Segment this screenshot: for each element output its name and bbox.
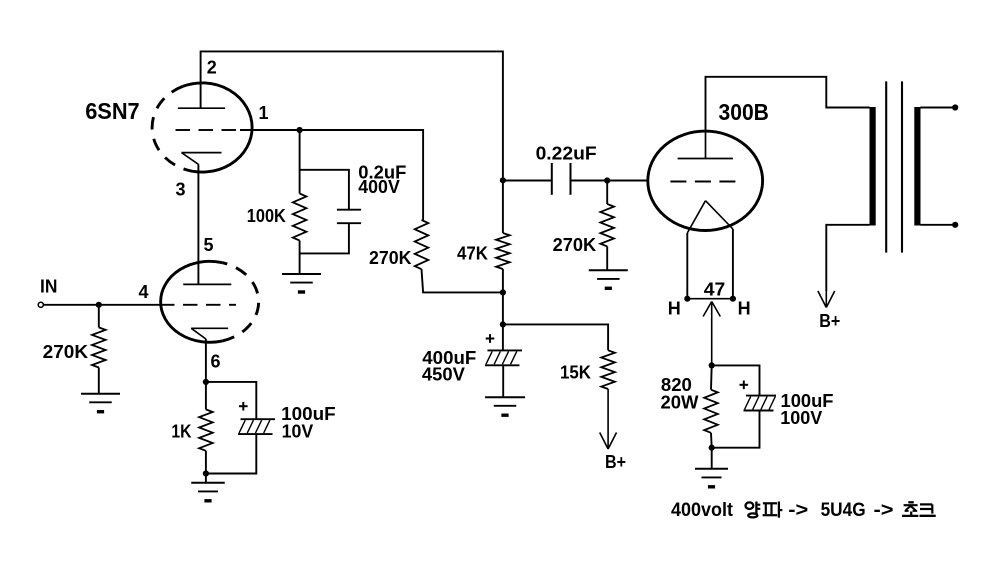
svg-text:0.22uF: 0.22uF [536,143,597,163]
resistor 270K (300B grid leak) [600,204,614,246]
U1A cathode [182,153,222,165]
svg-text:1: 1 [259,103,269,123]
B+ arrow (transformer primary) [818,291,835,308]
input node junction [96,302,102,308]
label 270K (mid) [369,248,412,268]
svg-text:15K: 15K [560,362,591,382]
wire U1A plate to top B+ rail down to 47K node [201,51,503,180]
label 15K [560,362,591,382]
label 0.22uF [536,143,597,163]
label 0.2uF 400V [358,163,406,197]
svg-text:3: 3 [176,179,186,199]
caption text 400volt [671,500,734,521]
ground (input 270K) [81,394,120,412]
svg-text:H: H [738,299,751,319]
300B plate [678,130,733,159]
transformer core [886,81,902,252]
pin 6 label [211,352,221,372]
ground (filament network) [695,469,728,487]
label 100uF 100V [780,391,833,428]
wire primary bottom to B+ arrow [826,225,869,291]
hum pot 47 ohm across filament [687,298,733,300]
node D junction [203,379,209,385]
caption arrow 1 [788,500,808,521]
U1B grid (dashed) [160,304,236,306]
svg-text:6: 6 [211,352,221,372]
wire node A down to 100K [299,130,301,194]
triode U1A envelope (6SN7 upper section, dashed left) [152,83,252,172]
node H junction (wiper) [709,362,715,368]
wire node B to 0.22uF [503,180,552,182]
wire filament right leg down [732,229,734,299]
node E junction [203,470,209,476]
pin 4 label [139,282,149,302]
svg-text:270K: 270K [553,235,597,255]
node G junction (300B grid) [604,177,610,183]
node F junction (400uF / 15K) [500,321,506,327]
capacitor 400uF 450V [485,350,522,365]
caption hangul yang [746,502,761,518]
caption hangul pa [763,502,783,518]
node A junction [297,127,303,133]
wire 820 to node I [710,433,713,448]
label 100K [247,206,286,226]
label 1K [171,421,191,441]
wire node D to 1K [205,382,207,410]
wire secondary bottom lead [921,224,954,226]
caption text 5U4G [821,500,866,521]
resistor 100K [293,194,307,241]
wire 100K bottom to ground [299,241,301,275]
ground (below 100K) [282,274,321,292]
wire 100uF 100V to node I [712,411,760,448]
IN terminal [38,302,43,307]
wire U1B cathode (pin 6) to node D [205,339,207,382]
wire 300B plate to output transformer [706,77,870,130]
caption hangul cho [902,502,918,516]
wire node E to ground [205,474,207,483]
svg-text:47K: 47K [457,243,488,263]
U1A plate [178,107,225,109]
wire node F to 15K [503,324,608,350]
resistor 820 20W [704,390,718,433]
svg-text:10V: 10V [282,421,314,441]
secondary terminal bottom [952,222,958,228]
node C junction [500,289,506,295]
wire node D to 100uF branch [206,382,256,419]
svg-text:270K: 270K [369,248,412,268]
svg-text:270K: 270K [43,342,88,362]
wire filament left leg down [686,233,688,299]
svg-text:B+: B+ [819,311,840,331]
svg-text:IN: IN [40,277,57,297]
plus sign (100uF 10V) [239,402,248,411]
label 820 20W [661,375,699,413]
label H (right) [738,299,751,319]
wire 270K input to ground [98,368,100,394]
pin 1 label [259,103,269,123]
svg-text:->: -> [874,500,894,521]
wire 100uF bottom to node E [206,434,256,473]
ground (1K cathode) [191,483,225,501]
svg-text:2: 2 [207,58,217,78]
wire node F to 400uF [502,324,504,350]
wire 400uF to ground [502,365,504,397]
label B+ (15K feed) [605,452,626,472]
wire node G to 270K [606,181,608,205]
wire 0.2uF bottom branch [300,223,349,253]
label 270K (input) [43,342,88,362]
U1B plate [183,283,231,285]
wire IN to U1B grid [43,304,159,306]
wire node B to 47K [502,180,504,233]
resistor 47K [496,233,510,269]
hum pot wiper arrow [703,302,720,366]
node B junction (47K / 0.22uF) [500,177,506,183]
label 100uF 10V [281,404,336,442]
svg-text:4: 4 [139,282,149,302]
B+ arrow (15K feed) [600,389,617,449]
caption hangul keu [920,504,936,515]
filament node H right [730,296,736,302]
svg-text:5: 5 [204,235,214,255]
capacitor 100uF 10V (cathode bypass) [238,419,275,434]
svg-text:47: 47 [704,279,726,299]
wire node H to 100uF 100V branch [712,365,760,395]
node I junction [709,445,715,451]
svg-text:20W: 20W [661,393,699,413]
U1A grid (dashed) [176,129,237,131]
wire 47K to node C [502,269,504,292]
wire secondary top lead [921,107,954,109]
label 6SN7 [85,98,140,124]
capacitor 100uF 100V [744,396,777,411]
plus sign (400uF) [486,334,495,343]
wire node G to 300B grid [607,180,646,182]
capacitor 0.2uF [337,210,361,224]
label 47K [457,243,488,263]
svg-text:100K: 100K [247,206,286,226]
resistor 270K (U1A grid to node C) [415,220,429,269]
svg-text:5U4G: 5U4G [821,500,866,521]
resistor 15K [601,350,615,389]
label H (left) [668,299,681,319]
wire 0.22uF to node G [571,180,608,182]
resistor 270K (input) [92,327,106,367]
secondary terminal top [952,104,958,110]
output transformer secondary winding [914,107,920,226]
wire node C to node F [502,292,504,324]
wire node H to 820 [710,365,713,389]
pin 2 label [207,58,217,78]
ground (270K grid leak) [589,270,628,288]
svg-text:300B: 300B [719,99,769,125]
wire 1K bottom to node E [205,451,207,474]
pin 5 label [204,235,214,255]
wire input node to 270K [98,305,100,328]
label 47 [704,279,726,299]
wire 0.2uF top branch [300,170,349,210]
svg-text:450V: 450V [422,364,465,384]
wire node I to ground [711,448,713,469]
wire 270K grid leak to ground [606,246,608,270]
caption arrow 2 [874,500,894,521]
ground (400uF) [485,397,525,415]
svg-text:B+: B+ [605,452,626,472]
label IN [40,277,57,297]
resistor 1K [199,409,213,450]
pin 3 label [176,179,186,199]
svg-text:400V: 400V [358,177,400,197]
label B+ (primary) [819,311,840,331]
300B grid (dashed) [670,181,735,183]
U1B cathode [191,328,228,339]
wire 270K bottom to node C [422,269,503,292]
svg-text:6SN7: 6SN7 [85,98,140,124]
output transformer primary winding [870,107,876,226]
svg-text:100V: 100V [780,408,822,428]
svg-text:400volt: 400volt [671,500,734,521]
plus sign (100uF 100V) [740,381,749,390]
filament node H left [684,296,690,302]
label 300B [719,99,769,125]
wire U1A cathode (pin 3) to U1B plate (pin 5) [197,164,199,284]
label 400uF 450V [422,348,476,384]
capacitor 0.22uF [552,163,571,195]
wire U1A grid pin1 to node A to 270K [240,130,423,220]
label 270K (grid leak) [553,235,597,255]
svg-text:->: -> [788,500,808,521]
triode 300B envelope [648,131,763,230]
svg-text:H: H [668,299,681,319]
300B filament [687,201,733,233]
triode U1B envelope (6SN7 lower section, dashed right) [161,261,259,342]
svg-text:1K: 1K [171,421,191,441]
